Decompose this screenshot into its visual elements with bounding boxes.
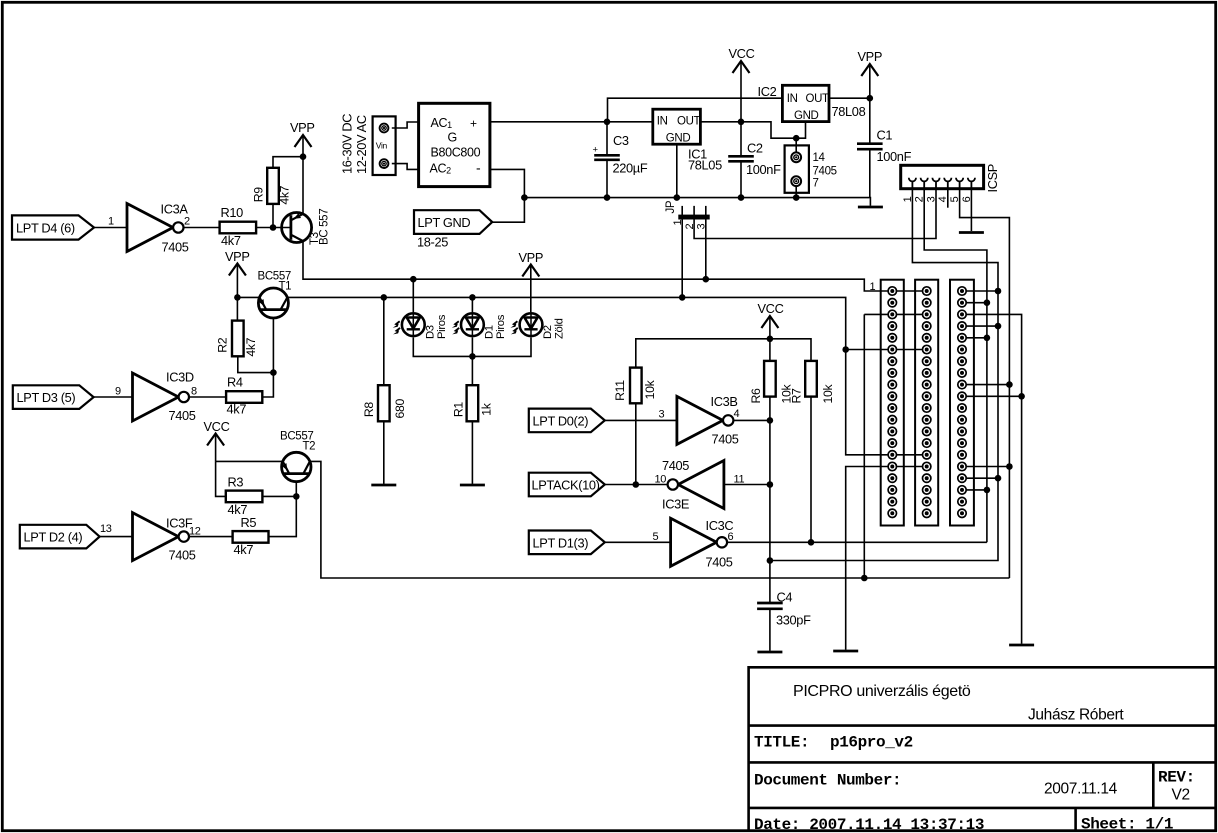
- svg-text:2: 2: [914, 196, 926, 202]
- svg-text:VPP: VPP: [519, 250, 544, 265]
- svg-text:R9: R9: [252, 187, 266, 203]
- svg-text:B80C800: B80C800: [431, 146, 481, 160]
- svg-text:6: 6: [961, 196, 973, 202]
- svg-text:LPTACK(10): LPTACK(10): [532, 478, 600, 493]
- svg-text:14: 14: [813, 152, 826, 164]
- svg-text:4: 4: [734, 408, 740, 420]
- svg-text:Date: 2007.11.14 13:37:13: Date: 2007.11.14 13:37:13: [754, 816, 984, 833]
- svg-text:5: 5: [653, 531, 659, 543]
- svg-text:16-30V DC: 16-30V DC: [340, 114, 355, 174]
- svg-text:C2: C2: [747, 141, 763, 156]
- svg-text:11: 11: [734, 474, 745, 486]
- svg-text:IN: IN: [657, 116, 668, 128]
- svg-text:330pF: 330pF: [776, 613, 811, 628]
- svg-text:R10: R10: [221, 205, 244, 220]
- svg-text:ICSP: ICSP: [985, 164, 1000, 192]
- svg-text:G: G: [448, 131, 457, 145]
- svg-text:2: 2: [184, 216, 190, 228]
- svg-text:4k7: 4k7: [221, 233, 241, 248]
- svg-text:C3: C3: [613, 133, 629, 148]
- svg-text:IC2: IC2: [758, 84, 777, 99]
- svg-text:10k: 10k: [821, 384, 835, 404]
- svg-text:JP: JP: [665, 200, 677, 213]
- svg-text:VCC: VCC: [729, 46, 755, 61]
- svg-text:R4: R4: [227, 375, 243, 390]
- svg-text:VPP: VPP: [290, 120, 315, 135]
- svg-text:REV:: REV:: [1158, 769, 1195, 787]
- svg-text:GND: GND: [794, 110, 819, 122]
- svg-text:7405: 7405: [169, 408, 196, 423]
- svg-text:3: 3: [925, 196, 937, 202]
- svg-text:Juhász Róbert: Juhász Róbert: [1028, 707, 1124, 724]
- svg-text:18-25: 18-25: [417, 235, 448, 250]
- svg-text:4k7: 4k7: [244, 337, 258, 356]
- svg-text:6: 6: [728, 531, 734, 543]
- svg-text:Piros: Piros: [436, 314, 448, 339]
- svg-text:Zöld: Zöld: [554, 318, 566, 339]
- svg-text:7405: 7405: [813, 166, 837, 178]
- svg-text:12: 12: [189, 526, 201, 538]
- svg-text:D2: D2: [542, 325, 554, 339]
- svg-text:7405: 7405: [706, 555, 733, 570]
- svg-text:7405: 7405: [169, 548, 196, 563]
- svg-text:VPP: VPP: [858, 49, 883, 64]
- svg-text:V2: V2: [1172, 787, 1190, 804]
- svg-text:4k7: 4k7: [277, 185, 291, 204]
- svg-text:Vin: Vin: [376, 141, 388, 151]
- svg-text:7405: 7405: [712, 432, 739, 447]
- svg-text:LPT D1(3): LPT D1(3): [533, 536, 589, 551]
- svg-text:R3: R3: [228, 475, 244, 490]
- svg-text:VCC: VCC: [758, 301, 784, 316]
- svg-text:100nF: 100nF: [877, 149, 912, 164]
- svg-text:R6: R6: [749, 388, 763, 404]
- svg-text:VCC: VCC: [204, 419, 230, 434]
- svg-text:D3: D3: [425, 325, 437, 339]
- svg-text:C1: C1: [877, 128, 893, 143]
- svg-text:13: 13: [100, 523, 112, 535]
- svg-text:100nF: 100nF: [746, 162, 781, 177]
- svg-text:PICPRO univerzális égetö: PICPRO univerzális égetö: [793, 683, 971, 700]
- svg-text:78L05: 78L05: [688, 158, 722, 173]
- svg-text:Document Number:: Document Number:: [754, 772, 901, 790]
- svg-text:R7: R7: [790, 388, 804, 404]
- svg-text:10k: 10k: [643, 379, 657, 399]
- svg-text:D1: D1: [484, 325, 496, 339]
- svg-text:IC3B: IC3B: [711, 394, 738, 409]
- svg-text:10: 10: [655, 474, 667, 486]
- svg-text:R8: R8: [362, 402, 376, 418]
- svg-text:+: +: [470, 117, 477, 131]
- svg-text:Piros: Piros: [495, 314, 507, 339]
- svg-text:2007.11.14: 2007.11.14: [1044, 781, 1118, 798]
- svg-text:IC3E: IC3E: [662, 497, 689, 512]
- svg-text:R1: R1: [452, 402, 466, 418]
- svg-text:+: +: [593, 145, 599, 156]
- svg-text:BC 557: BC 557: [319, 209, 331, 245]
- svg-text:7405: 7405: [162, 240, 189, 255]
- svg-text:2: 2: [684, 224, 696, 230]
- svg-text:LPT D0(2): LPT D0(2): [533, 414, 589, 429]
- svg-text:1k: 1k: [479, 402, 493, 415]
- svg-text:7: 7: [813, 178, 819, 190]
- svg-text:T1: T1: [279, 281, 292, 293]
- svg-text:7405: 7405: [662, 458, 689, 473]
- svg-text:4: 4: [937, 196, 949, 202]
- svg-text:680: 680: [393, 399, 407, 419]
- svg-text:9: 9: [115, 386, 121, 398]
- svg-text:TITLE:: TITLE:: [754, 734, 809, 752]
- svg-text:4k7: 4k7: [234, 542, 254, 557]
- svg-text:LPT GND: LPT GND: [418, 215, 471, 230]
- svg-text:R2: R2: [216, 337, 230, 353]
- svg-text:GND: GND: [666, 133, 691, 145]
- svg-text:OUT: OUT: [677, 116, 701, 128]
- svg-text:R5: R5: [241, 515, 257, 530]
- svg-text:220µF: 220µF: [613, 161, 648, 176]
- svg-text:1: 1: [902, 196, 914, 202]
- svg-text:OUT: OUT: [806, 93, 830, 105]
- svg-text:LPT D2 (4): LPT D2 (4): [24, 530, 83, 545]
- svg-text:1: 1: [108, 216, 114, 228]
- svg-text:T2: T2: [303, 441, 316, 453]
- svg-text:LPT D4 (6): LPT D4 (6): [16, 221, 75, 236]
- svg-text:3: 3: [696, 224, 708, 230]
- svg-text:LPT D3 (5): LPT D3 (5): [17, 390, 76, 405]
- svg-text:C4: C4: [777, 590, 793, 605]
- svg-text:-: -: [476, 160, 481, 176]
- svg-text:5: 5: [949, 196, 961, 202]
- svg-text:R11: R11: [613, 380, 627, 401]
- svg-text:IC3A: IC3A: [161, 202, 189, 217]
- svg-text:78L08: 78L08: [832, 104, 866, 119]
- svg-text:VPP: VPP: [225, 249, 250, 264]
- svg-text:4k7: 4k7: [227, 402, 247, 417]
- svg-text:IC3D: IC3D: [166, 370, 194, 385]
- svg-text:p16pro_v2: p16pro_v2: [830, 734, 913, 752]
- svg-text:8: 8: [191, 386, 197, 398]
- svg-text:IN: IN: [787, 93, 798, 105]
- svg-text:3: 3: [659, 409, 665, 421]
- svg-text:1: 1: [672, 220, 684, 226]
- svg-text:12-20V AC: 12-20V AC: [354, 115, 369, 174]
- svg-text:Sheet: 1/1: Sheet: 1/1: [1081, 816, 1173, 833]
- svg-text:1: 1: [870, 281, 876, 293]
